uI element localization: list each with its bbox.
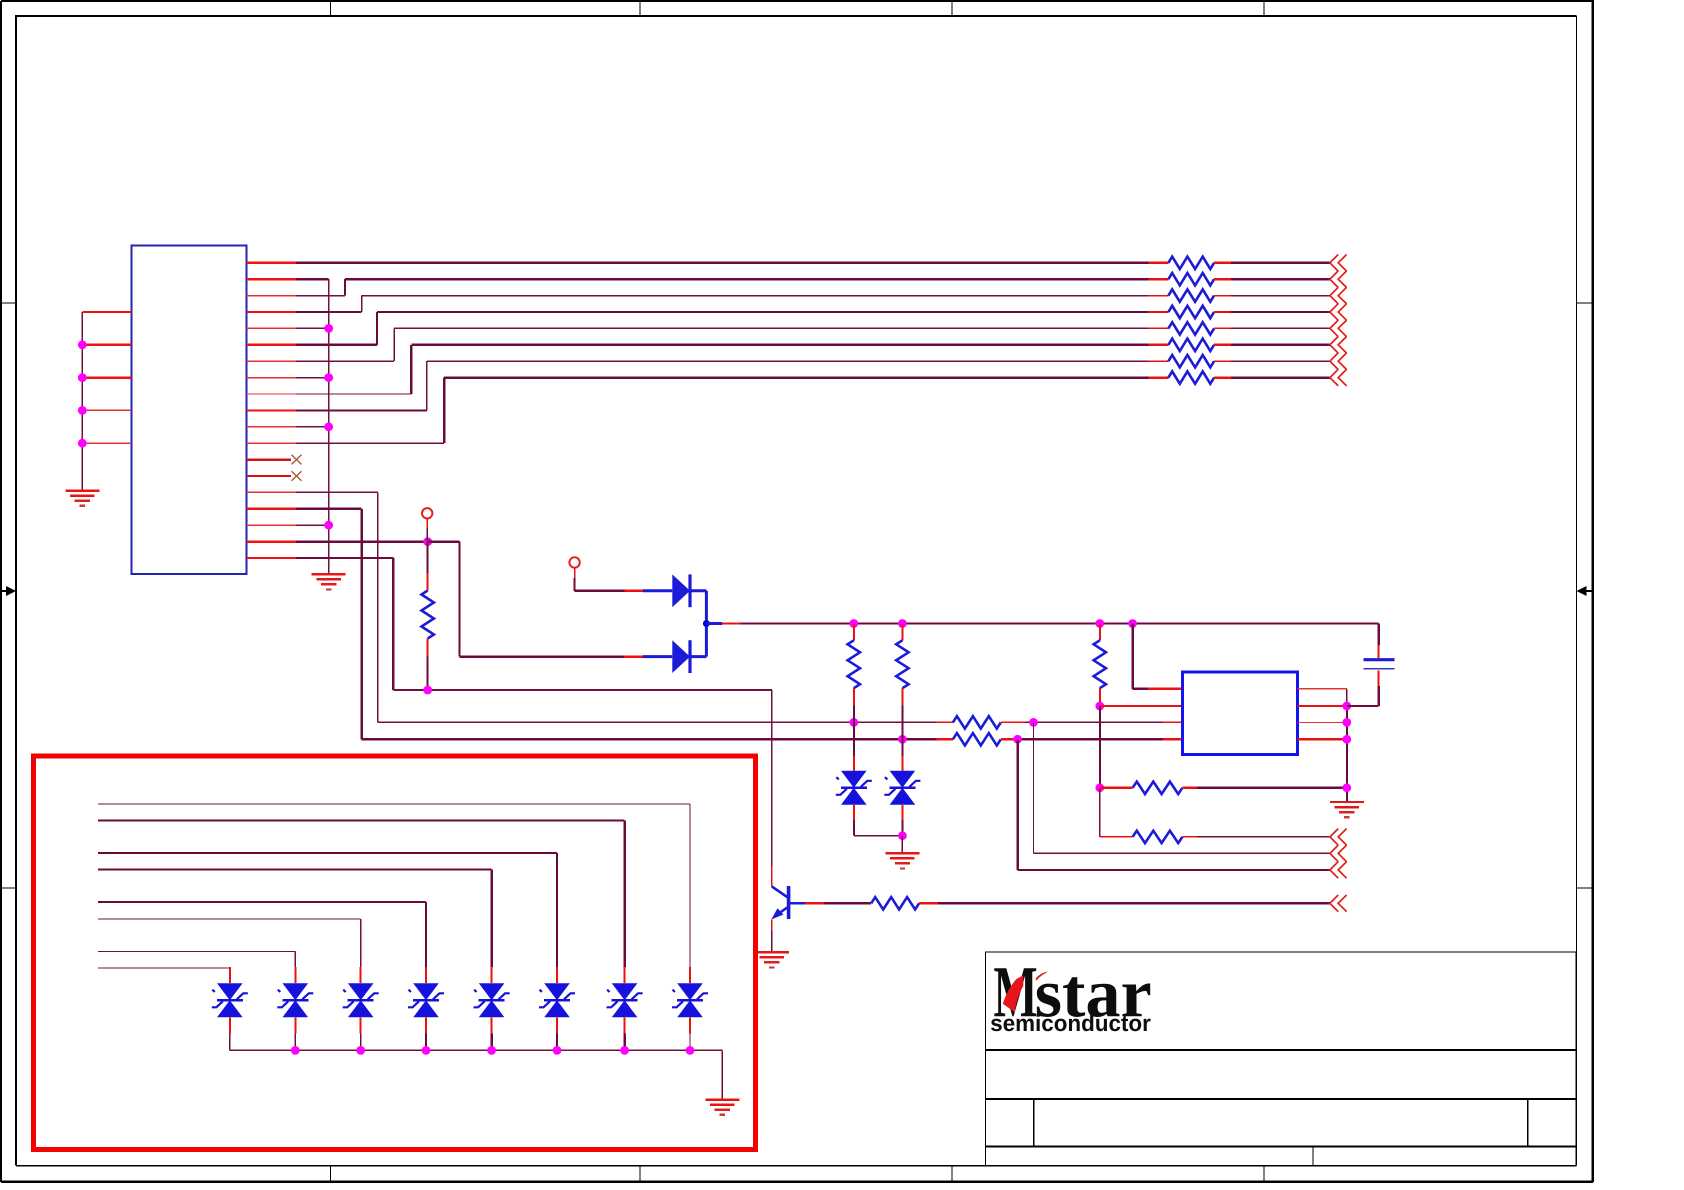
diode D2 bbox=[672, 640, 690, 673]
junctions TVS bus bbox=[291, 1046, 694, 1055]
wire R14 down bbox=[1099, 706, 1101, 788]
resistor R12 (vertical) bbox=[848, 640, 860, 688]
wire TVS D9 bottom bbox=[425, 1017, 427, 1050]
wire to TVS at x=902.4 bbox=[901, 739, 903, 771]
wire R15 to ground net bbox=[1182, 787, 1346, 789]
resistor R2 bbox=[1149, 273, 1232, 285]
resistor R3 bbox=[1149, 289, 1232, 301]
wire TVS bottom x=853.8 bbox=[853, 805, 855, 836]
wire row3 to resistor bbox=[362, 295, 1149, 297]
diode D1 bbox=[672, 574, 690, 607]
wire array row1 bbox=[98, 804, 690, 983]
resistor R6 bbox=[1149, 339, 1232, 351]
wire pin2 to ground bus bbox=[296, 278, 329, 280]
wire pin6 horizontal bbox=[296, 344, 377, 346]
resistor R1 bbox=[1149, 257, 1232, 269]
wire net SDA segment b bbox=[1001, 721, 1183, 723]
transistor Q1 bbox=[771, 886, 788, 920]
wire row7 to resistor bbox=[427, 360, 1149, 362]
wire SDA branch down bbox=[1034, 722, 1330, 853]
resistor R11 (vertical) bbox=[422, 591, 434, 639]
wire T1 to node A bbox=[426, 519, 428, 541]
wire C1 bottom bbox=[1347, 671, 1379, 707]
wire to diode2 anode bbox=[460, 655, 673, 657]
junctions IC right bbox=[1342, 702, 1351, 793]
wire riser to row8 bbox=[443, 378, 445, 444]
connector J1 left pin stubs bbox=[82, 312, 131, 443]
wire row4 to resistor bbox=[377, 311, 1149, 313]
bus entry chevron mid1 bbox=[1330, 829, 1347, 846]
junction diodes out bbox=[703, 620, 710, 627]
wire TVS bottom x=902.4 bbox=[901, 805, 903, 836]
wire row5 to resistor bbox=[394, 327, 1148, 329]
wire array row4 bbox=[98, 870, 492, 984]
wire TVS D7 bottom bbox=[556, 1017, 558, 1050]
bottom margin zone ticks bbox=[331, 1166, 1265, 1182]
wire T2 to diode1 bbox=[575, 568, 673, 591]
wires pins 5,8,11,17 to ground bus bbox=[296, 328, 329, 525]
wire VCC to IC pin L1 bbox=[1133, 624, 1183, 689]
wire riser to row6 bbox=[410, 345, 412, 394]
wire pin15 horizontal bbox=[296, 491, 378, 493]
TVS diode D7 bbox=[539, 983, 575, 1017]
wire row2 to bus entry bbox=[1231, 278, 1330, 280]
wire node A to diode2 corner bbox=[428, 540, 460, 542]
resistor R10 (horizontal mid) bbox=[953, 733, 1001, 745]
wire diode output junction bbox=[705, 591, 708, 657]
title block column dividers bbox=[1034, 1099, 1528, 1166]
ground G3 mid bbox=[885, 853, 919, 868]
wire R14 to IC pin row bbox=[1099, 688, 1101, 706]
junction SCL branch bbox=[1013, 735, 1022, 744]
right margin zone ticks bbox=[1577, 303, 1593, 888]
wire TVS D12 bottom bbox=[229, 1017, 231, 1050]
wire riser to row7 bbox=[426, 361, 428, 410]
wire TVS commons bbox=[854, 835, 903, 837]
ground G6 in box bbox=[705, 1100, 739, 1115]
wire node A down to R11 bbox=[427, 542, 429, 591]
bus entry chevron row4 bbox=[1330, 304, 1347, 321]
wire net SCL segment a bbox=[362, 738, 953, 740]
terminal circle T1 bbox=[422, 508, 432, 518]
junctions on left ground bus bbox=[78, 340, 87, 447]
bus entry chevron row3 bbox=[1330, 287, 1347, 304]
wire pin16 horizontal bbox=[296, 508, 362, 510]
wire R16 to bus entry bbox=[1182, 836, 1330, 838]
IC U2 body bbox=[1182, 672, 1297, 755]
wire row4 to bus entry bbox=[1231, 311, 1330, 313]
wire main VCC row bbox=[706, 622, 1378, 625]
wire VCC to C1 bbox=[1378, 624, 1380, 659]
wire TVS D10 bottom bbox=[360, 1017, 362, 1050]
wire Q1 base bbox=[789, 902, 872, 905]
wire array row8 bbox=[98, 967, 230, 983]
Mstar logo star text bbox=[1037, 977, 1150, 1017]
junction TVS common bbox=[898, 831, 907, 840]
TVS diode D4 bbox=[884, 771, 920, 805]
ground bus vertical bbox=[328, 279, 330, 574]
wire array row7 bbox=[98, 952, 295, 984]
wire row1 to bus entry bbox=[1231, 262, 1330, 264]
bus entry chevron row1 bbox=[1330, 255, 1347, 272]
resistor R5 bbox=[1149, 322, 1232, 334]
resistor R8 bbox=[1149, 371, 1232, 383]
wire row6 to bus entry bbox=[1231, 344, 1330, 346]
TVS common bus bbox=[230, 1049, 723, 1051]
wire riser to row2 bbox=[344, 279, 346, 295]
wire pin1 to resistor row1 bbox=[296, 262, 1149, 264]
resistor R16 (horizontal) bbox=[1133, 831, 1183, 843]
wire to R15 bbox=[1100, 787, 1133, 789]
wire pin18 horizontal bbox=[296, 540, 428, 542]
left ground bus wire bbox=[81, 312, 83, 491]
wire TVS D5 bottom bbox=[689, 1017, 691, 1050]
left margin zone ticks bbox=[2, 303, 17, 888]
connector J1 right pin stubs bbox=[247, 263, 297, 558]
bus entry chevron row8 bbox=[1330, 369, 1347, 386]
TVS diode D10 bbox=[343, 983, 379, 1017]
wire row6 to resistor bbox=[411, 344, 1148, 346]
semiconductor logo text bbox=[991, 1014, 1151, 1031]
wire net SCL segment b bbox=[1001, 738, 1183, 740]
resistor R17 (base) bbox=[871, 897, 919, 909]
wire TVS D6 bottom bbox=[624, 1017, 626, 1050]
Mstar logo letter M bbox=[994, 968, 1036, 1016]
junction node B bbox=[423, 686, 432, 695]
wire VCC to R14 bbox=[1099, 624, 1101, 641]
resistor R4 bbox=[1149, 306, 1232, 318]
bus entry chevron row7 bbox=[1330, 353, 1347, 370]
ground G4 emitter bbox=[755, 952, 789, 967]
junctions on VCC row bbox=[849, 619, 1137, 628]
bus entry chevron row2 bbox=[1330, 271, 1347, 288]
connector J1 body bbox=[132, 246, 247, 574]
wire pin12 horizontal bbox=[296, 442, 444, 444]
wire pin19 drop bbox=[392, 558, 394, 690]
no-connect X marks pins 13-14 bbox=[292, 455, 302, 481]
wire row8 to bus entry bbox=[1231, 376, 1330, 378]
resistor R7 bbox=[1149, 355, 1232, 367]
TVS diode D3 bbox=[836, 771, 872, 805]
wire R12 to row bbox=[853, 688, 855, 722]
wire to ground G3 bbox=[901, 836, 903, 854]
capacitor C1 bbox=[1364, 660, 1395, 669]
wire R17 to bus entry bbox=[919, 902, 1330, 904]
wire array row6 bbox=[98, 919, 361, 983]
junctions on ground bus bbox=[324, 324, 333, 530]
resistor R13 (vertical) bbox=[896, 640, 908, 688]
wire R13 to row bbox=[901, 688, 903, 739]
resistor R15 (horizontal) bbox=[1133, 782, 1183, 794]
wire Q1 emitter bbox=[771, 920, 773, 953]
wire TVS D8 bottom bbox=[491, 1017, 493, 1050]
title block outline bbox=[986, 952, 1577, 1166]
wire riser to row5 bbox=[393, 328, 395, 361]
wire VCC to R13 bbox=[901, 624, 903, 641]
TVS diode D5 bbox=[672, 983, 708, 1017]
junction R15 top bbox=[1095, 783, 1104, 792]
wire array row5 bbox=[98, 902, 426, 983]
right centerline arrow bbox=[1577, 586, 1593, 596]
junction R14 out bbox=[1095, 702, 1104, 711]
wire net SDA segment a bbox=[378, 721, 953, 723]
wire SCL branch down bbox=[1018, 739, 1330, 870]
left centerline arrow bbox=[2, 586, 17, 596]
bus entry chevron row5 bbox=[1330, 320, 1347, 337]
wire D1 cathode bbox=[690, 589, 706, 592]
Mstar logo red swoosh bbox=[1003, 972, 1048, 1013]
bus entry chevron row6 bbox=[1330, 337, 1347, 354]
TVS diode D12 bbox=[212, 983, 248, 1017]
bus entry chevron mid3 bbox=[1330, 862, 1347, 879]
TVS diode D9 bbox=[408, 983, 444, 1017]
wire array row3 bbox=[98, 853, 557, 983]
wire pin7 horizontal bbox=[296, 360, 394, 362]
wire pin9 horizontal bbox=[296, 393, 411, 395]
wire riser to row4 bbox=[376, 312, 378, 345]
wire row3 to bus entry bbox=[1231, 295, 1330, 297]
wire row2 to resistor bbox=[345, 278, 1149, 280]
title block row dividers bbox=[986, 1050, 1577, 1147]
ground G2 below connector bbox=[312, 574, 346, 589]
wire riser to row3 bbox=[361, 296, 363, 312]
top margin zone ticks bbox=[331, 2, 1265, 17]
wire bus to ground G6 bbox=[721, 1050, 723, 1099]
wire to IC pin L2 bbox=[1100, 705, 1183, 707]
TVS diode D8 bbox=[474, 983, 510, 1017]
junction SCL at column bbox=[898, 735, 907, 744]
ground G1 left bbox=[65, 491, 99, 506]
red highlight box bbox=[34, 756, 756, 1150]
wire pin15 drop bbox=[377, 492, 379, 722]
bus entry chevron base bbox=[1330, 895, 1347, 912]
wire R11 to node B bbox=[427, 639, 429, 691]
wire pin19 horizontal bbox=[296, 557, 393, 559]
wire R14 col down2 bbox=[1099, 788, 1101, 837]
ground G5 right bbox=[1330, 802, 1364, 817]
junction node A bbox=[423, 537, 432, 546]
wire collector riser bbox=[771, 690, 773, 887]
wire base row bbox=[393, 689, 772, 691]
wire TVS D11 bottom bbox=[294, 1017, 296, 1050]
wire to R16 bbox=[1100, 836, 1133, 838]
wire to TVS at x=853.8 bbox=[853, 722, 855, 770]
terminal circle T2 bbox=[569, 557, 579, 567]
wire row8 to resistor bbox=[444, 376, 1148, 378]
wire array row2 bbox=[98, 821, 625, 984]
wire row7 to bus entry bbox=[1231, 360, 1330, 362]
resistor R14 (vertical) bbox=[1094, 640, 1106, 688]
wire row5 to bus entry bbox=[1231, 327, 1330, 329]
junction SDA at column bbox=[849, 718, 858, 727]
TVS diode D6 bbox=[607, 983, 643, 1017]
IC U2 right pin stubs bbox=[1298, 689, 1347, 740]
wire pin10 horizontal bbox=[296, 409, 427, 411]
wire pin16 drop bbox=[360, 509, 362, 740]
resistor R9 (horizontal mid) bbox=[953, 716, 1001, 728]
TVS diode D11 bbox=[277, 983, 313, 1017]
wire VCC to R12 bbox=[853, 624, 855, 641]
bus entry chevron mid2 bbox=[1330, 845, 1347, 862]
junction SDA branch bbox=[1029, 718, 1038, 727]
wire pin3 horizontal bbox=[296, 295, 345, 297]
wire pin4 horizontal bbox=[296, 311, 362, 313]
wire D2 cathode bbox=[690, 655, 706, 658]
wire drop to diode2 row bbox=[458, 542, 460, 657]
wire IC right vertical bbox=[1346, 689, 1348, 802]
